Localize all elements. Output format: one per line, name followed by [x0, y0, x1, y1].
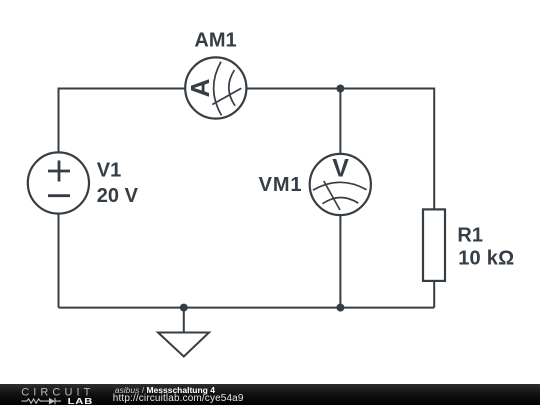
node bottom junction	[336, 304, 344, 312]
svg-text:VM1: VM1	[259, 174, 303, 196]
footer line 2	[113, 394, 244, 404]
label V1 value	[97, 160, 139, 208]
ammeter AM1	[185, 57, 246, 118]
wire ground stub	[183, 308, 185, 333]
wire top-right horizontal	[246, 88, 434, 90]
wire right vertical upper	[433, 88, 435, 210]
voltmeter VM1	[310, 154, 371, 215]
svg-text:R1: R1	[457, 225, 483, 247]
label R1 value	[457, 225, 514, 270]
ground	[158, 333, 209, 357]
svg-text:A: A	[185, 78, 215, 97]
svg-text:10 kΩ: 10 kΩ	[458, 248, 514, 270]
wire bottom horizontal	[59, 307, 435, 309]
node ground junction	[180, 304, 188, 312]
footer line 1	[115, 386, 215, 395]
svg-text:V1: V1	[97, 160, 121, 182]
wire left vertical lower	[58, 213, 60, 307]
wire right vertical lower	[433, 281, 435, 308]
svg-text:V: V	[332, 154, 349, 182]
wire top-left horizontal	[59, 88, 186, 90]
svg-text:LAB: LAB	[68, 397, 94, 406]
wire voltmeter top	[339, 89, 341, 154]
CircuitLab logo	[0, 385, 110, 406]
svg-text:20 V: 20 V	[97, 185, 139, 207]
footer bar	[0, 384, 540, 405]
svg-text:AM1: AM1	[194, 30, 236, 52]
node top junction	[336, 85, 344, 93]
voltage source V1	[28, 152, 89, 213]
wire left vertical upper	[58, 88, 60, 153]
wire voltmeter bottom	[339, 215, 341, 308]
resistor R1	[423, 209, 445, 281]
